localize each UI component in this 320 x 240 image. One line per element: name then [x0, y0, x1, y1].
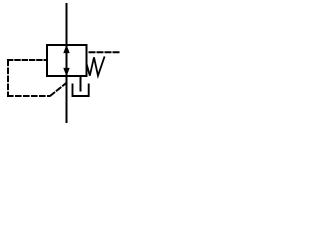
valve body square	[47, 45, 87, 76]
tank symbol (open-top reservoir)	[73, 85, 89, 97]
pilot line dashed: horizontal into left side of body	[8, 59, 47, 61]
spring (right side of body)	[87, 57, 104, 75]
wire: drain line from body bottom into tank	[80, 77, 82, 91]
pilot/drain dashed stub to the right of body	[90, 51, 121, 53]
pilot line dashed: bottom horizontal	[8, 95, 49, 97]
wire: main vertical line (inlet top to outlet bottom)	[66, 4, 68, 122]
pilot line dashed: left vertical	[7, 61, 9, 97]
flow arrow up (inside body, tip at top edge)	[64, 46, 69, 53]
flow arrow down (inside body, tip at bottom edge)	[64, 68, 69, 75]
pilot line dashed: diagonal to main line junction	[51, 83, 67, 95]
